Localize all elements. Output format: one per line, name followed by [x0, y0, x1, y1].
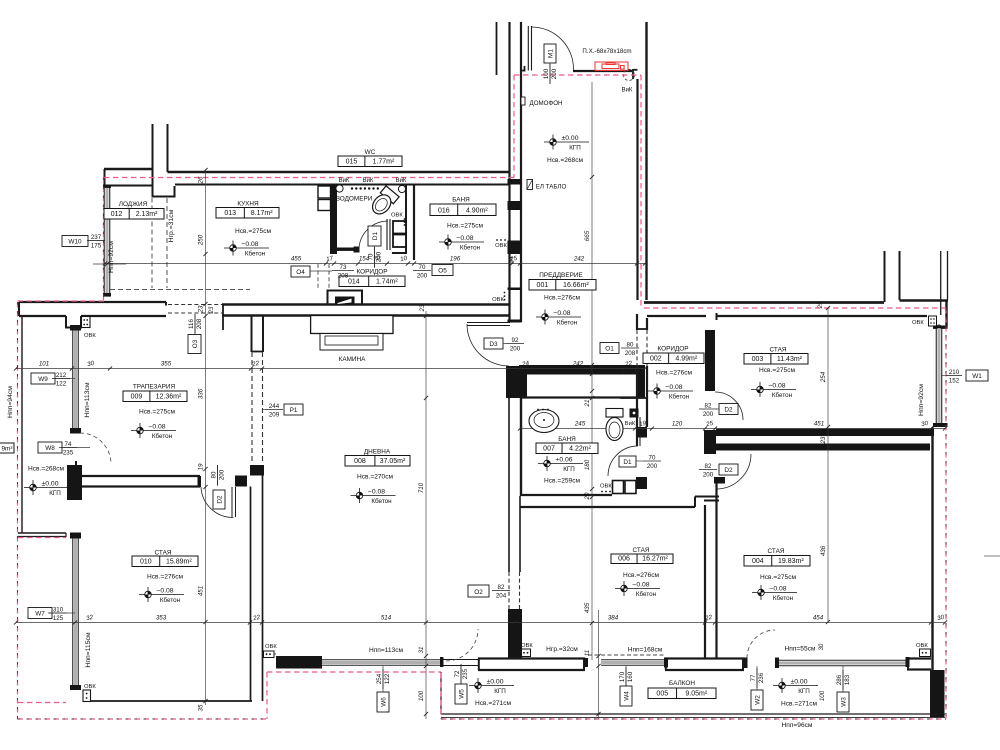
cut room label at west edge: [0, 443, 14, 453]
svg-text:70: 70: [419, 264, 426, 271]
svg-text:ВиК: ВиК: [339, 178, 350, 184]
wall entrance north line: [573, 70, 633, 72]
svg-text:D2: D2: [724, 407, 733, 414]
door M1 leaf: [527, 26, 529, 71]
text el tablo: [527, 180, 533, 190]
svg-text:ОВК: ОВК: [265, 644, 277, 650]
svg-text:Кбетон: Кбетон: [152, 432, 173, 440]
svg-text:355: 355: [161, 361, 172, 368]
wall entrance east jog: [632, 69, 634, 79]
svg-text:ОВК: ОВК: [492, 297, 504, 303]
svg-text:4.99m²: 4.99m²: [675, 356, 697, 363]
svg-text:ВОДОМЕРИ: ВОДОМЕРИ: [336, 196, 373, 203]
svg-text:−0.08: −0.08: [368, 488, 385, 495]
fixture watermeter toilet: [368, 186, 399, 218]
OVK shaft box at pier: [82, 317, 91, 328]
window label W5: [460, 666, 462, 684]
wall wc east / bath016 west - hollow: [405, 186, 407, 253]
marker room003: [751, 382, 796, 397]
svg-text:O4: O4: [296, 269, 305, 276]
svg-text:−0.08: −0.08: [241, 241, 258, 248]
dim vertical x205: [205, 170, 207, 705]
dim chain y263: [105, 263, 645, 265]
svg-text:W3: W3: [840, 697, 847, 707]
svg-text:ЛОДЖИЯ: ЛОДЖИЯ: [119, 201, 148, 208]
fireplace bump outline: [327, 290, 329, 305]
pier below D3 solid: [506, 366, 520, 398]
svg-text:ВиК: ВиК: [622, 88, 633, 94]
svg-text:23: 23: [209, 306, 215, 314]
svg-text:454: 454: [813, 615, 824, 622]
dim chain y622: [16, 622, 945, 624]
wall room010 east hollow: [250, 487, 252, 702]
svg-text:Нсв.=276см: Нсв.=276см: [544, 295, 581, 302]
svg-text:ПРЕДДВЕРИЕ: ПРЕДДВЕРИЕ: [539, 272, 582, 279]
svg-text:183: 183: [844, 674, 851, 685]
fixture bath007 sink: [529, 410, 559, 433]
opening label O3: [188, 335, 201, 354]
svg-text:Нпп=113см: Нпп=113см: [369, 647, 404, 654]
door label D2 room004: [719, 464, 738, 475]
marker room004: [752, 585, 797, 600]
svg-text:245: 245: [574, 421, 586, 428]
watermeter dots: [351, 187, 353, 189]
wall corridor-south hollow band: [222, 303, 509, 305]
dnevna south front: wall west solid piece: [276, 656, 322, 669]
svg-text:235: 235: [63, 450, 74, 457]
svg-text:73: 73: [340, 264, 347, 271]
svg-text:9.05m²: 9.05m²: [685, 691, 707, 698]
wall northeast corner line: [945, 301, 947, 328]
wall room006 north line: [520, 506, 695, 508]
svg-text:16.66m²: 16.66m²: [563, 282, 589, 289]
marker trapezaria: [131, 423, 176, 438]
wall corridor002 west hollow with O1: [636, 314, 638, 330]
wall balcony southeast outline: [907, 657, 931, 659]
dim vertical x592: [591, 82, 593, 660]
door D2 arc room004: [716, 454, 751, 489]
svg-text:Нсв.=275см: Нсв.=275см: [760, 574, 797, 581]
svg-text:Нпп=92см: Нпп=92см: [108, 241, 115, 273]
svg-text:−0.08: −0.08: [148, 423, 165, 430]
svg-text:200: 200: [376, 251, 383, 262]
svg-text:−0.08: −0.08: [632, 581, 649, 588]
svg-text:23: 23: [820, 436, 827, 444]
svg-text:D2: D2: [216, 495, 223, 504]
svg-text:−0.08: −0.08: [665, 384, 682, 391]
svg-text:120: 120: [672, 421, 683, 428]
svg-text:W4: W4: [623, 691, 630, 701]
corner block northeast of room010: [250, 465, 264, 476]
svg-text:242: 242: [573, 256, 585, 263]
svg-text:Нпп=96см: Нпп=96см: [782, 722, 813, 729]
svg-text:КАМИНА: КАМИНА: [339, 356, 367, 363]
svg-text:200: 200: [417, 273, 428, 280]
svg-text:77: 77: [750, 674, 757, 681]
svg-text:200: 200: [703, 411, 714, 418]
svg-text:КГП: КГП: [494, 688, 506, 695]
svg-text:СТАЯ: СТАЯ: [155, 550, 172, 557]
solid blocks in preddverie west wall: [508, 179, 522, 185]
svg-text:003: 003: [752, 356, 764, 363]
jamb middle: [440, 657, 444, 667]
svg-text:Нпп=94см: Нпп=94см: [7, 386, 14, 418]
dim vertical x948 right stub: [984, 555, 1000, 557]
svg-text:24: 24: [509, 256, 515, 264]
svg-text:26: 26: [198, 176, 205, 184]
svg-text:208: 208: [625, 350, 636, 357]
svg-text:D2: D2: [724, 467, 733, 474]
marker corridor002: [648, 384, 693, 399]
svg-text:Нгр.=32см: Нгр.=32см: [546, 646, 578, 653]
solid block bath007 SE: [636, 477, 647, 489]
svg-text:9m²: 9m²: [1, 446, 12, 453]
svg-text:КУХНЯ: КУХНЯ: [237, 201, 259, 208]
svg-text:15.89m²: 15.89m²: [166, 559, 192, 566]
wall west band top of trapezaria - hollow: [19, 301, 166, 303]
svg-text:436: 436: [820, 545, 827, 556]
svg-text:005: 005: [656, 691, 668, 698]
svg-text:004: 004: [752, 558, 764, 565]
window label W8: [38, 442, 62, 453]
svg-text:19.83m²: 19.83m²: [778, 558, 804, 565]
svg-text:СТАЯ: СТАЯ: [633, 547, 650, 554]
fixture bath007 toilet: [606, 409, 623, 418]
svg-text:1.74m²: 1.74m²: [376, 279, 398, 286]
svg-text:КГП: КГП: [798, 688, 810, 695]
window label W10: [62, 236, 88, 247]
svg-text:ТРАПЕЗАРИЯ: ТРАПЕЗАРИЯ: [133, 384, 176, 391]
window label W2: [756, 666, 758, 690]
svg-text:W6: W6: [380, 697, 387, 707]
svg-text:310: 310: [53, 606, 64, 613]
svg-text:236: 236: [758, 672, 765, 683]
opening O3 dashes: [168, 304, 222, 306]
svg-text:СТАЯ: СТАЯ: [770, 347, 787, 354]
svg-text:015: 015: [346, 159, 358, 166]
dim vertical x426: [425, 311, 427, 719]
svg-text:244: 244: [269, 403, 280, 410]
svg-text:200: 200: [703, 472, 714, 479]
svg-text:ОВК: ОВК: [600, 484, 612, 490]
svg-text:КОРИДОР: КОРИДОР: [356, 269, 387, 276]
svg-text:200: 200: [219, 469, 226, 480]
svg-text:−0.08: −0.08: [156, 587, 173, 594]
wall east thin line below W1: [931, 427, 933, 670]
svg-text:Кбетон: Кбетон: [669, 392, 690, 400]
svg-text:455: 455: [291, 256, 302, 263]
svg-text:4.90m²: 4.90m²: [466, 208, 488, 215]
opening P1 hollow pier + dashes: [251, 316, 253, 353]
svg-text:Нсв.=271см: Нсв.=271см: [781, 701, 818, 708]
wall corridor002 east solid: [704, 430, 716, 454]
door-window lines to terrace: [444, 659, 479, 661]
svg-text:101: 101: [39, 361, 49, 368]
marker dnevna: [351, 488, 396, 503]
svg-text:Кбетон: Кбетон: [160, 596, 181, 604]
svg-text:Кбетон: Кбетон: [773, 594, 794, 602]
text domofon: [521, 97, 525, 105]
svg-text:−0.08: −0.08: [456, 235, 473, 242]
svg-text:92: 92: [512, 337, 519, 344]
svg-text:31: 31: [418, 647, 425, 654]
svg-text:336: 336: [198, 388, 205, 399]
svg-text:21: 21: [584, 400, 591, 408]
svg-text:Нсв.=276см: Нсв.=276см: [147, 574, 184, 581]
svg-text:001: 001: [537, 282, 549, 289]
svg-text:250: 250: [198, 234, 205, 246]
svg-text:200: 200: [647, 463, 658, 470]
svg-text:Кбетон: Кбетон: [245, 249, 266, 257]
svg-text:210: 210: [949, 369, 960, 376]
wall room004 north solid band: [716, 444, 930, 451]
wall room003 south solid band: [716, 429, 934, 437]
svg-text:242: 242: [572, 361, 584, 368]
svg-text:4.22m²: 4.22m²: [569, 446, 591, 453]
door wc leaf+arc: [386, 219, 388, 250]
svg-text:W9: W9: [38, 376, 48, 383]
window label W6: [382, 666, 384, 692]
wall balcony south middle outline: [665, 657, 744, 659]
svg-text:006: 006: [618, 556, 630, 563]
svg-text:Нсв.=275см: Нсв.=275см: [447, 223, 484, 230]
svg-text:125: 125: [53, 615, 64, 622]
pier outline below west band: [65, 316, 67, 329]
svg-text:208: 208: [338, 273, 349, 280]
svg-text:КОРИДОР: КОРИДОР: [657, 346, 688, 353]
door room004 to balcony dashed arc: [747, 630, 775, 658]
marker room010: [139, 587, 184, 602]
svg-text:W2: W2: [754, 695, 761, 705]
balcony front edge lines: [441, 713, 945, 715]
dim chain y368: [16, 368, 645, 370]
opening label O1: [600, 343, 619, 354]
svg-text:−0.08: −0.08: [553, 310, 570, 317]
kitchen cabinet boxes: [318, 186, 331, 198]
marker preddverie entry: [544, 135, 589, 150]
door D1 bath007 leaf+arc: [636, 417, 638, 446]
svg-text:70: 70: [649, 454, 656, 461]
svg-text:БАЛКОН: БАЛКОН: [669, 680, 695, 687]
svg-text:−0.08: −0.08: [768, 382, 785, 389]
svg-text:±0.00: ±0.00: [791, 678, 808, 685]
svg-text:72: 72: [454, 670, 461, 677]
svg-text:ВиК: ВиК: [625, 421, 636, 427]
svg-text:1.77m²: 1.77m²: [373, 159, 395, 166]
dim chain y428: [520, 428, 945, 430]
marker balcony middle: [469, 678, 514, 693]
svg-text:23: 23: [420, 304, 426, 312]
svg-text:451: 451: [814, 421, 824, 428]
wall rooms-block north hollow band: [644, 301, 884, 304]
svg-text:Кбетон: Кбетон: [636, 590, 657, 598]
wall entrance east hollow pair: [645, 22, 647, 300]
svg-text:ДОМОФОН: ДОМОФОН: [530, 100, 563, 107]
svg-text:Нсв.=259см: Нсв.=259см: [544, 478, 581, 485]
neighbour stubs above rooms-block: [884, 251, 886, 302]
svg-text:Нсв.=268см: Нсв.=268см: [547, 157, 584, 164]
svg-text:D1: D1: [372, 231, 379, 240]
svg-text:009: 009: [131, 394, 143, 401]
svg-text:БАНЯ: БАНЯ: [452, 197, 470, 204]
wall stubs above top band: [152, 124, 154, 169]
pier room006 southwest solid: [508, 609, 522, 658]
svg-text:Кбетон: Кбетон: [557, 318, 578, 326]
svg-text:W1: W1: [972, 373, 982, 380]
svg-text:122: 122: [56, 381, 67, 388]
svg-text:20: 20: [584, 492, 591, 500]
svg-text:152: 152: [949, 378, 960, 385]
svg-text:P1: P1: [290, 407, 298, 414]
wall corridor002 east upper solid: [705, 330, 715, 391]
svg-text:170: 170: [619, 671, 626, 682]
window label W7: [28, 608, 52, 619]
svg-text:200: 200: [551, 68, 558, 79]
svg-text:254: 254: [376, 673, 383, 684]
svg-text:25: 25: [818, 301, 824, 309]
svg-text:008: 008: [354, 458, 366, 465]
svg-text:82: 82: [498, 584, 505, 591]
svg-text:82: 82: [705, 402, 712, 409]
svg-text:16.27m²: 16.27m²: [642, 556, 668, 563]
window label W4: [625, 666, 627, 686]
thin corridor west wall below block: [636, 437, 638, 446]
svg-text:80: 80: [627, 341, 634, 348]
opening label O2: [468, 585, 489, 597]
svg-text:ОВК: ОВК: [912, 320, 924, 326]
svg-text:WC: WC: [365, 149, 376, 156]
svg-text:Нпп=113см: Нпп=113см: [84, 382, 91, 417]
svg-text:175: 175: [91, 243, 102, 250]
svg-text:710: 710: [418, 482, 425, 493]
svg-text:208: 208: [196, 318, 203, 329]
marker preddverie: [536, 310, 581, 325]
marker balcony east: [773, 678, 818, 693]
terrace west edge line: [21, 316, 23, 533]
wall corridor002 west hollow lower / bath007 east: [636, 366, 638, 446]
svg-text:Нпп=92см: Нпп=92см: [918, 384, 925, 416]
svg-text:ОВК: ОВК: [84, 684, 96, 690]
svg-text:Нсв.=275см: Нсв.=275см: [139, 409, 176, 416]
svg-text:204: 204: [496, 593, 507, 600]
svg-text:209: 209: [269, 412, 280, 419]
svg-text:514: 514: [381, 615, 392, 622]
pier trapezaria southwest solid: [67, 465, 82, 500]
svg-text:Нсв.=276см: Нсв.=276см: [623, 572, 660, 579]
svg-text:80: 80: [211, 471, 218, 478]
svg-text:Нсв.=268см: Нсв.=268см: [28, 466, 65, 473]
ViK dashed circle at entrance: [624, 70, 635, 81]
svg-text:012: 012: [111, 211, 123, 218]
svg-text:ВиК: ВиК: [396, 178, 407, 184]
fireplace insert black: [335, 297, 355, 305]
fireplace kamina mantel: [311, 316, 393, 334]
window label W3: [842, 666, 844, 692]
terrace southwest wall lines: [18, 532, 66, 534]
solid block corridor west at dim line: [636, 427, 647, 438]
svg-text:±0.00: ±0.00: [562, 135, 579, 142]
svg-text:435: 435: [584, 602, 591, 613]
fixture P.X. red box: [595, 62, 628, 71]
svg-text:116: 116: [188, 319, 195, 329]
svg-text:Нпп=168см: Нпп=168см: [628, 647, 663, 654]
svg-text:014: 014: [348, 279, 360, 286]
svg-text:235: 235: [462, 668, 469, 679]
svg-text:665: 665: [584, 230, 591, 241]
svg-text:23: 23: [198, 305, 205, 313]
door D3 leaf and arc: [467, 322, 510, 324]
svg-text:БАНЯ: БАНЯ: [558, 436, 576, 443]
wall divider room006/004 hollow: [704, 505, 706, 658]
svg-text:Нсв.=275см: Нсв.=275см: [235, 228, 272, 235]
door dashed below W8: [80, 433, 111, 464]
svg-text:Нсв.=276см: Нсв.=276см: [656, 370, 693, 377]
svg-text:O2: O2: [474, 589, 483, 596]
svg-text:30: 30: [819, 643, 825, 650]
svg-text:Нсв.=271см: Нсв.=271см: [475, 700, 512, 707]
svg-text:19: 19: [198, 463, 205, 470]
svg-text:−0.08: −0.08: [769, 585, 786, 592]
red dashed insulation contour: [104, 177, 514, 179]
svg-text:212: 212: [56, 372, 67, 379]
svg-text:384: 384: [608, 615, 619, 622]
svg-text:100: 100: [819, 690, 826, 701]
opening O2 dashes: [508, 572, 510, 609]
wall room006 west hollow + O2: [508, 398, 510, 572]
marker room006: [615, 581, 660, 596]
window dnevna south: [322, 661, 440, 664]
svg-text:W8: W8: [45, 445, 55, 452]
opening O1 dashes: [636, 330, 638, 366]
svg-text:254: 254: [820, 371, 827, 383]
marker bath016: [439, 235, 484, 250]
svg-text:11.43m²: 11.43m²: [777, 356, 803, 363]
svg-text:016: 016: [438, 208, 450, 215]
svg-text:286: 286: [836, 674, 843, 685]
svg-text:ОВК: ОВК: [916, 643, 928, 649]
wall trapezaria south hollow: [82, 475, 200, 477]
wall bath007 bottom line: [520, 494, 612, 496]
black dashes over red bottom: [18, 718, 268, 720]
svg-text:180: 180: [584, 459, 591, 470]
svg-text:D3: D3: [489, 341, 498, 348]
svg-text:Нпп=55см: Нпп=55см: [785, 646, 816, 653]
door label D1 watermeter: [368, 226, 381, 246]
svg-text:8.17m²: 8.17m²: [251, 210, 273, 217]
door M1 arc: [532, 27, 574, 70]
fixture watermeter pipes: [336, 185, 343, 192]
opening label O5: [432, 265, 453, 276]
svg-text:+0.06: +0.06: [555, 456, 572, 463]
svg-text:O3: O3: [192, 339, 199, 348]
dim tick at loggia window W10: [93, 263, 126, 265]
wall top band: north outline of loggia/kitchen/wc: [104, 168, 153, 170]
svg-text:ОВК: ОВК: [391, 213, 403, 219]
svg-text:W7: W7: [35, 611, 45, 618]
svg-text:010: 010: [140, 559, 152, 566]
neighbour wall line at entrance west: [496, 22, 498, 75]
svg-text:196: 196: [450, 256, 461, 263]
window room006 south: [601, 661, 665, 664]
svg-text:ВиК: ВиК: [363, 178, 374, 184]
svg-text:007: 007: [543, 446, 555, 453]
window W1 east: [933, 326, 948, 329]
wall wc bottom + jamb: [331, 248, 355, 251]
door D2 arc room003: [715, 392, 743, 420]
svg-text:П.Х.-68х78х18cm: П.Х.-68х78х18cm: [582, 48, 631, 55]
svg-text:74: 74: [65, 441, 72, 448]
svg-text:СТАЯ: СТАЯ: [768, 548, 785, 555]
